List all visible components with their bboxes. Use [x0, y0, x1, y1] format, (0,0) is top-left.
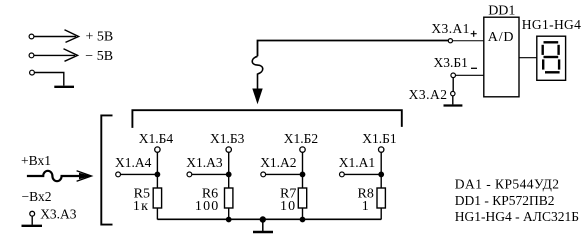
svg-text:X1.А1: X1.А1 [339, 155, 375, 170]
svg-text:X3.Б1: X3.Б1 [434, 55, 468, 70]
svg-text:X1.Б4: X1.Б4 [139, 131, 174, 146]
svg-text:DD1 - КР572ПВ2: DD1 - КР572ПВ2 [455, 193, 555, 208]
svg-text:+ 5В: + 5В [86, 29, 114, 44]
svg-text:X3.А2: X3.А2 [409, 87, 448, 102]
svg-text:1к: 1к [133, 199, 149, 214]
svg-text:X1.Б1: X1.Б1 [362, 131, 396, 146]
svg-text:DA1 - КР544УД2: DA1 - КР544УД2 [455, 177, 560, 192]
svg-text:HG1-HG4 - АЛС321Б: HG1-HG4 - АЛС321Б [455, 209, 579, 224]
svg-text:HG1-HG4: HG1-HG4 [522, 17, 581, 32]
svg-text:−Вх2: −Вх2 [22, 189, 52, 204]
svg-text:DD1: DD1 [488, 4, 515, 19]
svg-text:X3.А3: X3.А3 [40, 206, 77, 221]
svg-text:10: 10 [280, 199, 296, 214]
svg-text:X1.А2: X1.А2 [260, 155, 296, 170]
svg-text:X1.А4: X1.А4 [115, 155, 152, 170]
svg-text:X3.А1: X3.А1 [431, 21, 469, 36]
svg-text:A/D: A/D [488, 30, 515, 45]
svg-text:+Вх1: +Вх1 [21, 153, 51, 168]
svg-text:X1.А3: X1.А3 [186, 155, 223, 170]
svg-text:100: 100 [195, 199, 220, 214]
svg-text:1: 1 [362, 199, 369, 214]
svg-text:X1.Б2: X1.Б2 [284, 131, 318, 146]
svg-text:− 5В: − 5В [85, 49, 113, 64]
svg-text:X1.Б3: X1.Б3 [210, 131, 245, 146]
